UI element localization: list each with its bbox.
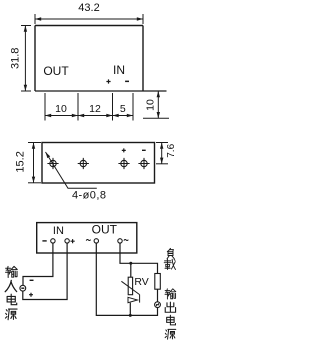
pin hole 1	[47, 158, 58, 169]
pin hole 2	[78, 158, 89, 169]
relay body outline (top view)	[35, 26, 143, 92]
label - (top view input polarity)	[125, 81, 129, 83]
junction node (RV top)	[129, 262, 132, 265]
dimension 15.2 (bottom view height)	[28, 143, 41, 183]
wire IN+ down from terminal	[23, 243, 67, 299]
label ~ (OUT terminal 1)	[86, 239, 90, 240]
text 输出电源 (output power, right column)	[165, 289, 176, 299]
relay body bottom edge extended right (extension for vertical dim)	[35, 90, 167, 92]
svg-text:OUT: OUT	[92, 223, 118, 237]
pin-position extension lines below top view	[45, 93, 133, 121]
pin hole 4	[138, 158, 149, 169]
body outline (bottom view)	[42, 143, 155, 184]
svg-text:RV: RV	[134, 276, 148, 288]
svg-text:IN: IN	[53, 225, 64, 237]
terminal IN+	[65, 239, 69, 243]
input DC source symbol	[20, 285, 26, 291]
output AC source symbol	[155, 302, 161, 308]
varistor RV	[128, 277, 132, 295]
label ~ (OUT terminal 2)	[124, 239, 128, 240]
svg-text:4-ø0,8: 4-ø0,8	[72, 190, 107, 202]
vertical dimension 10 (pin length, right side)	[143, 117, 169, 119]
svg-text:43.2: 43.2	[78, 2, 99, 14]
terminal IN-	[51, 239, 55, 243]
svg-text:7.6: 7.6	[166, 143, 177, 157]
label + (hole 3)	[122, 148, 126, 152]
dimension 7.6 (hole offset)	[156, 143, 168, 164]
svg-text:15.2: 15.2	[15, 151, 27, 172]
load resistor (负载)	[155, 274, 161, 290]
svg-text:12: 12	[89, 103, 101, 115]
wire RV branch down	[130, 263, 132, 277]
wire below RV	[129, 303, 131, 316]
wire IN- down from terminal	[23, 243, 53, 285]
svg-text:31.8: 31.8	[10, 48, 22, 69]
label - (IN negative terminal)	[42, 240, 46, 241]
wire OUT1 down and across bottom	[96, 243, 157, 315]
label - (input source)	[30, 280, 34, 281]
svg-text:IN: IN	[113, 63, 125, 77]
label + (input source)	[29, 293, 33, 297]
label - (hole 4)	[142, 150, 146, 151]
wire OUT2 down then right	[120, 243, 158, 273]
chained dimension line 10 / 12 / 5	[45, 115, 133, 117]
label + (top view input polarity)	[106, 79, 110, 83]
svg-text:5: 5	[120, 103, 126, 115]
wire load to output source	[157, 289, 159, 302]
junction node (RV bottom)	[129, 314, 132, 317]
text 负载 (load)	[167, 248, 174, 258]
relay box (wiring diagram)	[37, 223, 137, 253]
label + (IN positive terminal)	[71, 239, 75, 243]
leader line 4-ø0,8	[46, 152, 97, 188]
svg-text:10: 10	[55, 103, 67, 115]
terminal OUT1	[94, 239, 98, 243]
pin hole 3	[118, 158, 129, 169]
dimension 43.2 (width)	[35, 14, 143, 24]
svg-text:OUT: OUT	[43, 64, 69, 78]
svg-text:10: 10	[144, 99, 156, 111]
text 输入电源 (input power, left column)	[6, 266, 18, 277]
terminal OUT2	[118, 239, 122, 243]
dimension 31.8 (height)	[21, 26, 31, 92]
